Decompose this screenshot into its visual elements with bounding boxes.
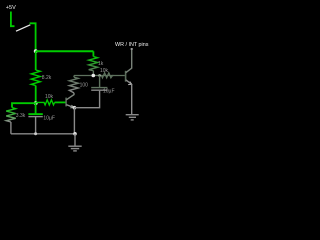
wire R2 bottom to ground rail: [10, 122, 12, 134]
wire Q2 emitter down to ground: [131, 84, 133, 114]
wire Q1 emitter right to C2 bottom lead: [74, 91, 99, 108]
resistor R5 1k top lead from +5V rail: [92, 51, 94, 56]
wire R1 bottom to node B: [35, 86, 37, 104]
transistor Q2 collector: [126, 49, 132, 73]
wire node A to 1k resistor (top rail): [36, 50, 94, 52]
resistor R2 3.3k: [6, 108, 16, 123]
svg-text:10µF: 10µF: [43, 116, 55, 122]
capacitor C2 top lead: [99, 76, 101, 88]
svg-text:10µF: 10µF: [103, 88, 115, 94]
capacitor C1 bottom plate: [28, 116, 42, 118]
wire node B left and down to R2: [12, 103, 36, 107]
capacitor C1 bottom lead: [35, 117, 37, 134]
resistor R3 10k horizontal: [36, 100, 55, 105]
capacitor C2 bottom plate: [91, 89, 107, 91]
node WR/INT post: [131, 48, 133, 50]
svg-text:8.2k: 8.2k: [42, 75, 52, 81]
junction dot C1/rail: [34, 132, 37, 135]
ground G1: [74, 134, 76, 146]
transistor Q1 emitter with arrow: [66, 105, 73, 108]
resistor R5 1k: [89, 57, 98, 71]
switch SW1 right post wire down to node A: [30, 23, 36, 51]
capacitor C2 top plate: [91, 87, 107, 89]
wire Q1 emitter down to rail: [73, 108, 75, 134]
transistor Q1 base bar: [65, 98, 67, 107]
capacitor C1 top plate: [28, 113, 42, 115]
transistor Q2 emitter with arrow: [126, 80, 132, 85]
wire base rail y75.5: [74, 75, 125, 77]
transistor Q1 collector: [66, 93, 74, 100]
svg-text:3.3k: 3.3k: [16, 113, 26, 119]
transistor Q2 base bar: [125, 71, 127, 82]
wire node A down to R1: [35, 51, 37, 70]
node C junction dot: [92, 74, 96, 78]
node D junction dot (C2 top): [98, 74, 101, 77]
svg-text:100: 100: [80, 82, 89, 88]
node A junction dot: [34, 49, 38, 53]
resistor R4 100 top corner from base rail: [73, 76, 75, 78]
svg-text:+5V: +5V: [6, 5, 16, 11]
svg-text:10k: 10k: [100, 68, 109, 74]
resistor R4 100: [69, 77, 78, 93]
svg-text:WR / INT pins: WR / INT pins: [115, 42, 149, 48]
capacitor C1 10uF top lead: [35, 103, 37, 113]
svg-text:10k: 10k: [45, 94, 54, 100]
resistor R1 8.2k: [31, 70, 40, 86]
wire R5 bottom to node C: [92, 71, 94, 76]
resistor R6 10k horizontal: [102, 73, 114, 78]
ground G2: [126, 114, 139, 116]
node E junction dot (Q1 emitter): [73, 106, 77, 110]
wire R3 to Q1 base: [55, 101, 66, 103]
switch SW1 lever (open): [16, 25, 30, 31]
ground rail wire: [11, 133, 75, 135]
wire from +5V supply down to switch: [11, 12, 15, 27]
svg-text:1k: 1k: [98, 61, 104, 67]
node B junction dot: [34, 101, 38, 105]
junction dot rail/ground: [73, 132, 77, 136]
